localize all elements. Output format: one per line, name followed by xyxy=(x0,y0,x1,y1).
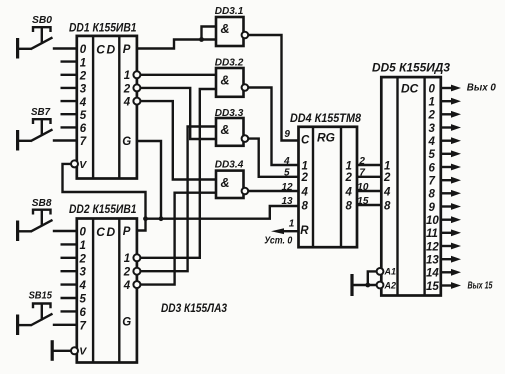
svg-text:5: 5 xyxy=(80,294,87,306)
svg-text:5: 5 xyxy=(284,168,290,179)
decoder DD5 K155ID3 xyxy=(352,61,450,297)
svg-text:&: & xyxy=(221,73,230,87)
svg-text:CD: CD xyxy=(96,225,116,239)
SB7 wire to blade pivot xyxy=(18,140,31,142)
wire DD2.4 to DD3.4 lower input xyxy=(141,193,217,285)
SB8 blade xyxy=(31,220,53,232)
svg-text:C: C xyxy=(301,135,310,147)
svg-text:2: 2 xyxy=(123,267,131,279)
encoder DD2 K155IV1 xyxy=(52,202,140,363)
wire output 12 arrow xyxy=(441,245,452,247)
svg-text:4: 4 xyxy=(79,280,87,292)
DD5 box xyxy=(381,77,441,295)
wire output 15 arrow xyxy=(441,284,452,286)
DD4 output labels right 1 2 4 8 xyxy=(345,160,353,212)
svg-text:1: 1 xyxy=(346,160,352,172)
svg-text:SB8: SB8 xyxy=(32,198,52,209)
NAND gate DD3.4 xyxy=(215,160,248,199)
svg-text:0: 0 xyxy=(80,44,87,56)
wire output 6 arrow xyxy=(441,166,452,168)
svg-text:8: 8 xyxy=(384,200,391,212)
svg-text:V: V xyxy=(79,346,87,358)
DD2 V pin circle xyxy=(71,347,78,354)
SB8 terminal bar xyxy=(16,221,19,242)
DD3.3 box xyxy=(216,118,244,146)
junction A2 xyxy=(365,283,370,288)
register DD4 K155TM8 xyxy=(264,111,381,247)
wire DD3.2 output to DD4 pin 4 xyxy=(248,88,298,166)
DD2 box xyxy=(77,219,137,363)
wire DD3.1 output to DD4 pin 9 C xyxy=(248,35,298,141)
wire data-8 rail to DD4 pin 13 xyxy=(146,206,299,219)
DD2 input stubs 1-6 xyxy=(61,244,77,311)
DD3.2 box xyxy=(216,68,244,97)
svg-text:7: 7 xyxy=(429,176,436,188)
wire output 4 arrow xyxy=(441,139,452,141)
DD2 output circle 2 xyxy=(133,268,140,275)
DD3.4 output circle xyxy=(242,188,249,195)
svg-text:DD4 К155ТМ8: DD4 К155ТМ8 xyxy=(290,111,361,125)
svg-text:11: 11 xyxy=(426,228,438,240)
svg-text:7: 7 xyxy=(80,320,87,332)
wire output 8 arrow xyxy=(441,192,452,194)
svg-text:6: 6 xyxy=(429,162,436,174)
DD2 column dividers xyxy=(93,219,119,363)
wire output 0 arrow xyxy=(441,87,452,89)
wire output 11 arrow xyxy=(441,232,452,234)
svg-text:V: V xyxy=(79,159,87,171)
DD5 output labels 0-15 xyxy=(426,83,439,293)
svg-text:4: 4 xyxy=(79,97,87,109)
wire output 9 arrow xyxy=(441,205,452,207)
svg-text:1: 1 xyxy=(124,70,130,82)
svg-text:&: & xyxy=(221,123,230,137)
DD2 input labels 0-7 xyxy=(79,227,87,333)
svg-text:0: 0 xyxy=(429,83,436,95)
svg-text:Вых 15: Вых 15 xyxy=(468,280,493,291)
svg-text:4: 4 xyxy=(428,136,436,148)
svg-text:10: 10 xyxy=(426,215,439,227)
svg-text:7: 7 xyxy=(80,136,87,148)
DD3.3 output circle xyxy=(242,135,249,142)
DD3.4 box xyxy=(216,171,244,198)
svg-text:DD3.4: DD3.4 xyxy=(215,160,244,171)
DD5 output arrows 0-15 xyxy=(441,85,461,289)
svg-text:1: 1 xyxy=(80,57,86,69)
svg-text:2: 2 xyxy=(79,71,87,83)
junction P/DD3.1 xyxy=(199,37,204,42)
DD1 box xyxy=(77,36,137,179)
svg-text:3: 3 xyxy=(80,84,87,96)
pushbutton SB15 xyxy=(18,290,77,335)
DD1 output circle 2 xyxy=(133,84,140,91)
svg-text:5: 5 xyxy=(429,149,436,161)
wire DD1.P to DD3.1 inputs xyxy=(137,27,216,49)
svg-text:6: 6 xyxy=(80,123,87,135)
svg-text:DD3.1: DD3.1 xyxy=(215,6,244,17)
DD3.1 output circle xyxy=(242,32,249,39)
svg-text:0: 0 xyxy=(80,227,87,239)
svg-text:12: 12 xyxy=(282,182,294,193)
svg-text:P: P xyxy=(123,226,131,238)
DD3.1 box xyxy=(216,17,244,46)
DD1 output circle 4 xyxy=(133,98,140,105)
SB7 blade xyxy=(31,129,53,141)
svg-text:5: 5 xyxy=(80,110,87,122)
wire DD4.2 to DD5.2 xyxy=(357,176,381,178)
svg-text:1: 1 xyxy=(302,160,308,172)
svg-text:1: 1 xyxy=(289,219,295,230)
encoder DD1 K155IV1 xyxy=(61,20,141,178)
wire output 5 arrow xyxy=(441,153,452,155)
svg-text:Уст. 0: Уст. 0 xyxy=(264,236,292,247)
svg-text:1: 1 xyxy=(384,160,390,172)
svg-text:SB0: SB0 xyxy=(32,15,52,26)
DD1 input stubs 1-6 xyxy=(61,62,77,128)
DD1 V pin circle xyxy=(71,160,78,167)
SB15 blade xyxy=(31,314,53,326)
svg-text:SB15: SB15 xyxy=(29,290,53,301)
svg-text:SB7: SB7 xyxy=(31,107,50,118)
svg-text:4: 4 xyxy=(123,97,131,109)
DD4 data labels left 1 2 4 8 xyxy=(301,160,309,212)
wire DD3.4 output to DD4 pin 12 xyxy=(248,190,298,192)
DD2 output circle 1 xyxy=(133,254,140,261)
svg-text:2: 2 xyxy=(79,253,87,265)
DD3.2 output circle xyxy=(242,84,249,91)
svg-text:DD2 К155ИВ1: DD2 К155ИВ1 xyxy=(69,202,137,216)
DD5 column dividers xyxy=(398,77,425,295)
svg-text:9: 9 xyxy=(429,202,436,214)
svg-text:2: 2 xyxy=(123,83,131,95)
SB8 actuator xyxy=(33,210,51,227)
svg-text:DD3 К155ЛА3: DD3 К155ЛА3 xyxy=(161,301,227,315)
SB7 terminal bar xyxy=(16,130,19,151)
svg-text:G: G xyxy=(122,136,131,148)
wire DD1.G down to data-8 rail xyxy=(137,141,161,219)
svg-text:DD5 К155ИД3: DD5 К155ИД3 xyxy=(372,61,450,75)
svg-text:6: 6 xyxy=(80,307,87,319)
svg-text:A1: A1 xyxy=(384,267,397,277)
DD5 input labels 1 2 4 8 xyxy=(383,160,391,212)
wire output 13 arrow xyxy=(441,258,452,260)
wire DD3.3 output to DD4 pin 5 xyxy=(248,139,298,177)
svg-text:12: 12 xyxy=(426,241,439,253)
wire output 14 arrow xyxy=(441,271,452,273)
svg-text:G: G xyxy=(122,316,131,328)
svg-text:CD: CD xyxy=(96,43,116,57)
svg-text:3: 3 xyxy=(429,123,436,135)
DD1 output circle 1 xyxy=(133,71,140,78)
wire DD1.4 to DD3.4 top input xyxy=(141,101,217,179)
wire output 10 arrow xyxy=(441,218,452,220)
wire DD2.1 to DD3.2 lower input xyxy=(141,89,217,258)
SB7 actuator xyxy=(33,119,51,136)
wire SB0 to DD1 pin 0 xyxy=(53,47,77,49)
junction G rail xyxy=(159,216,164,221)
svg-text:4: 4 xyxy=(283,156,290,167)
svg-text:13: 13 xyxy=(426,255,439,267)
DD2 V wire to common terminal xyxy=(53,350,71,352)
SB0 terminal bar xyxy=(16,38,19,59)
svg-text:15: 15 xyxy=(426,281,439,293)
wire output 7 arrow xyxy=(441,179,452,181)
DD5 A1 pin circle xyxy=(377,268,384,275)
SB0 blade xyxy=(31,37,53,49)
svg-text:RG: RG xyxy=(317,130,335,144)
svg-text:13: 13 xyxy=(282,196,294,207)
wire DD4.8 to DD5.8 xyxy=(357,204,381,206)
wire DD1.2 to DD3.3 lower input xyxy=(141,88,217,139)
wire SB15 to DD2 pin 7 xyxy=(53,324,77,326)
DD1 column dividers xyxy=(93,36,119,179)
DD5 output rows xyxy=(426,83,496,293)
SB0 wire to blade pivot xyxy=(18,48,31,50)
svg-text:DD1 К155ИВ1: DD1 К155ИВ1 xyxy=(69,20,137,34)
wire DD1.V to DD2.P xyxy=(63,164,146,231)
svg-text:2: 2 xyxy=(301,172,309,184)
reset arrow head xyxy=(271,228,284,234)
svg-text:2: 2 xyxy=(428,110,436,122)
SB8 wire to blade pivot xyxy=(18,230,31,232)
junction V rail xyxy=(143,216,148,221)
svg-text:A2: A2 xyxy=(384,280,397,290)
svg-text:2: 2 xyxy=(383,172,391,184)
NAND gate DD3.3 xyxy=(215,108,248,146)
common terminal bar at A1 A2 xyxy=(350,274,353,296)
svg-text:4: 4 xyxy=(345,186,353,198)
svg-text:&: & xyxy=(221,176,230,190)
wire output 3 arrow xyxy=(441,126,452,128)
wire DD1.1 to DD3.2 top input xyxy=(141,74,217,76)
svg-text:4: 4 xyxy=(383,186,391,198)
svg-text:1: 1 xyxy=(124,253,130,265)
svg-text:9: 9 xyxy=(284,129,290,140)
wire SB7 to DD1 pin 7 xyxy=(53,139,77,141)
pushbutton SB8 xyxy=(18,198,77,241)
SB15 actuator xyxy=(33,304,51,321)
svg-text:1: 1 xyxy=(429,97,435,109)
wire output 1 arrow xyxy=(441,100,452,102)
svg-text:4: 4 xyxy=(123,280,131,292)
wire A1 A2 to common xyxy=(353,271,377,285)
svg-text:8: 8 xyxy=(346,200,353,212)
wire DD4.1 to DD5.1 xyxy=(357,164,381,166)
svg-text:4: 4 xyxy=(301,186,309,198)
common terminal bar at DD2 V xyxy=(51,340,54,361)
wire DD2.2 to DD3.3 top input xyxy=(141,127,217,272)
DD2 output circle 4 xyxy=(133,281,140,288)
svg-text:&: & xyxy=(221,22,230,36)
wire SB8 to DD2 pin 0 xyxy=(53,230,77,232)
DD4 box xyxy=(299,127,358,247)
DD4 column dividers xyxy=(313,127,341,247)
DD4 right pin numbers 2 7 10 15 xyxy=(357,156,369,207)
NAND gate DD3.2 xyxy=(215,58,248,97)
svg-text:1: 1 xyxy=(80,240,86,252)
DD4 left pin numbers 4 5 12 13 xyxy=(282,156,294,207)
SB15 terminal bar xyxy=(16,315,19,336)
DD4 reset input wire xyxy=(283,230,299,232)
svg-text:3: 3 xyxy=(80,267,87,279)
wire DD4.4 to DD5.4 xyxy=(357,190,381,192)
DD1 input labels 0-7 xyxy=(79,44,87,148)
svg-text:8: 8 xyxy=(429,189,436,201)
svg-text:Вых 0: Вых 0 xyxy=(467,83,496,94)
NAND gate DD3.1 xyxy=(215,6,248,46)
wire output 2 arrow xyxy=(441,113,452,115)
SB15 wire to blade pivot xyxy=(18,324,31,326)
svg-text:P: P xyxy=(123,44,131,56)
pushbutton SB7 xyxy=(18,107,77,151)
svg-text:8: 8 xyxy=(302,200,309,212)
svg-text:DC: DC xyxy=(401,82,419,96)
DD5 A2 pin circle xyxy=(377,282,384,289)
SB0 actuator xyxy=(33,27,51,44)
svg-text:R: R xyxy=(300,225,309,237)
svg-text:14: 14 xyxy=(426,268,439,280)
pushbutton SB0 xyxy=(18,15,77,59)
svg-text:2: 2 xyxy=(345,172,353,184)
